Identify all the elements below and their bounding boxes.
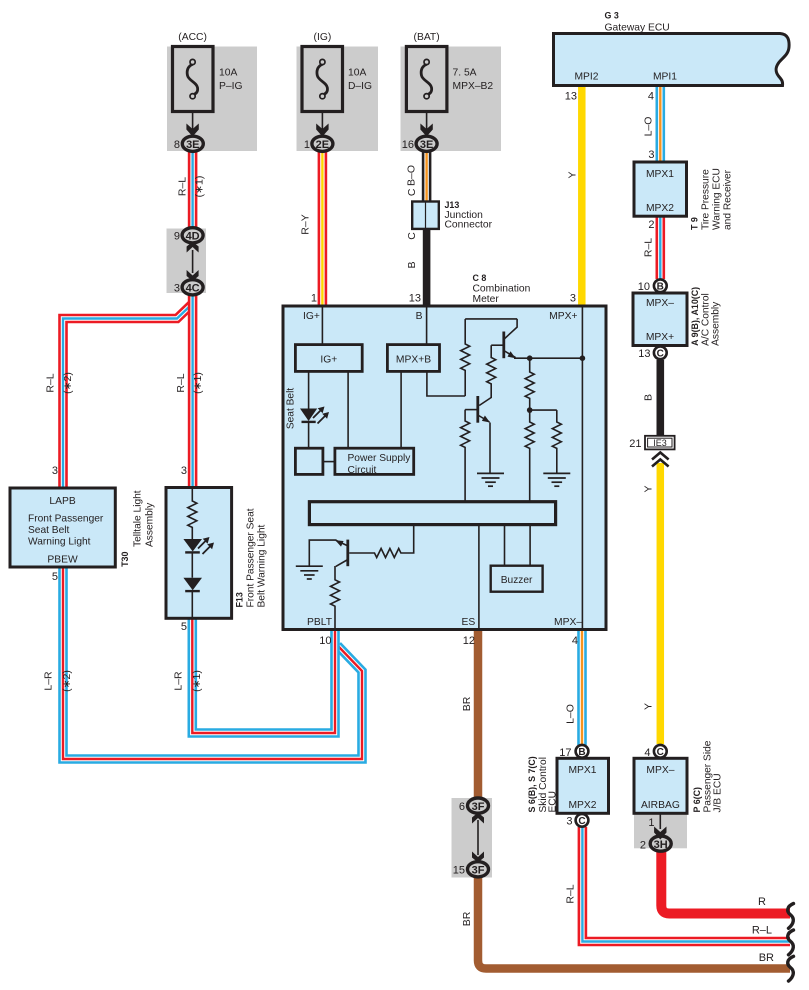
svg-text:P–IG: P–IG — [219, 81, 242, 92]
svg-text:13: 13 — [565, 91, 577, 103]
seat belt LED — [300, 407, 329, 424]
svg-text:BR: BR — [461, 911, 473, 926]
svg-text:9: 9 — [174, 231, 180, 243]
transistor Q2 — [476, 396, 479, 423]
circle connector C (P6 pin 4) — [654, 745, 667, 758]
svg-text:Circuit: Circuit — [348, 465, 377, 476]
fuse BAT 7.5A MPX-B2 — [406, 47, 447, 137]
wire IG+ block to LED — [308, 371, 310, 408]
svg-text:Buzzer: Buzzer — [501, 575, 533, 586]
svg-text:4: 4 — [644, 747, 650, 759]
ground G2 under R5 — [543, 473, 570, 486]
wire MPX+ pin3 down right side to MPX- pin4 — [581, 307, 583, 628]
svg-text:G 3: G 3 — [605, 11, 619, 21]
svg-text:J13: J13 — [445, 200, 460, 210]
svg-text:R–L: R–L — [177, 177, 189, 196]
svg-text:(∗2): (∗2) — [62, 372, 74, 394]
svg-text:IG+: IG+ — [320, 355, 337, 366]
svg-text:3: 3 — [648, 149, 654, 161]
resistor R3 — [525, 358, 534, 410]
svg-text:AIRBAG: AIRBAG — [641, 800, 680, 811]
node dot MPX+ line — [580, 355, 586, 361]
svg-text:R–L: R–L — [565, 884, 577, 903]
svg-text:B: B — [406, 261, 418, 268]
svg-text:PBLT: PBLT — [307, 617, 333, 628]
wire B A/C to IE3 — [656, 360, 664, 437]
bus bar rectangle — [309, 502, 555, 525]
svg-text:T 9: T 9 — [690, 217, 700, 230]
svg-text:Assembly: Assembly — [145, 502, 156, 547]
svg-text:10: 10 — [319, 635, 331, 647]
svg-text:3: 3 — [181, 465, 187, 477]
svg-text:MPX1: MPX1 — [646, 169, 674, 180]
oval connector 3H (pin 2) — [650, 836, 671, 851]
svg-text:12: 12 — [463, 635, 475, 647]
svg-text:3E: 3E — [420, 139, 433, 151]
svg-text:13: 13 — [409, 293, 421, 305]
rotated wire labels — [43, 117, 655, 927]
METER INTERNAL CIRCUIT — [309, 307, 583, 628]
svg-text:Warning ECU: Warning ECU — [712, 168, 723, 230]
transistor Q2 emitter arrow — [482, 416, 490, 423]
svg-text:Front Passenger Seat: Front Passenger Seat — [246, 508, 257, 607]
node dot R3/R4 junction — [527, 407, 533, 413]
svg-text:1: 1 — [311, 293, 317, 305]
svg-text:3H: 3H — [654, 839, 668, 851]
gateway ECU G3 box — [554, 34, 790, 86]
svg-text:A 9(B), A10(C): A 9(B), A10(C) — [690, 287, 700, 346]
buzzer block — [491, 566, 543, 592]
svg-text:Assembly: Assembly — [711, 301, 722, 346]
svg-text:S 6(B), S 7(C): S 6(B), S 7(C) — [527, 756, 537, 812]
svg-text:MPX+: MPX+ — [549, 311, 577, 322]
connector 4D/4C gray — [167, 229, 207, 294]
svg-text:1: 1 — [648, 817, 654, 829]
svg-text:R–L: R–L — [643, 238, 655, 257]
svg-text:R–L: R–L — [45, 373, 57, 392]
GRAY BOXES — [167, 47, 688, 878]
wire small box to power supply circuit — [323, 461, 335, 463]
svg-text:MPX–: MPX– — [554, 617, 582, 628]
combination meter C8 box — [283, 306, 606, 630]
circle connector C (skid pin 3) — [576, 814, 589, 827]
svg-text:3: 3 — [566, 816, 572, 828]
svg-text:4D: 4D — [186, 231, 200, 243]
svg-text:MPI1: MPI1 — [653, 72, 677, 83]
svg-text:Seat Belt: Seat Belt — [286, 388, 297, 430]
svg-text:J/B ECU: J/B ECU — [713, 773, 724, 812]
wire LED to small box — [308, 422, 310, 448]
connector 3F gray — [452, 798, 493, 878]
A/C control assembly box — [633, 293, 687, 346]
svg-text:5: 5 — [181, 621, 187, 633]
svg-text:3: 3 — [52, 465, 58, 477]
transistor Q3 emitter arrow (PNP) — [335, 540, 343, 546]
passenger side J/B ECU P6 box — [634, 758, 687, 813]
svg-text:Connector: Connector — [445, 220, 493, 231]
svg-text:C: C — [578, 816, 585, 827]
svg-text:C: C — [406, 232, 418, 240]
svg-text:L–R: L–R — [173, 671, 185, 691]
svg-text:IG+: IG+ — [303, 311, 320, 322]
svg-text:15: 15 — [453, 865, 465, 877]
fuse block (IG) gray — [297, 47, 379, 152]
svg-text:L–R: L–R — [43, 671, 55, 691]
oval connector 3E (BAT pin 16) — [416, 136, 437, 151]
svg-text:Y: Y — [643, 703, 655, 710]
transistor Q3 — [346, 540, 349, 567]
svg-text:10A: 10A — [219, 68, 237, 79]
svg-text:Y: Y — [567, 171, 579, 178]
telltale light assembly T30 box — [10, 488, 115, 567]
svg-text:2: 2 — [640, 839, 646, 851]
svg-text:17: 17 — [559, 747, 571, 759]
wire MPX+B to power supply circuit — [400, 371, 402, 448]
svg-text:13: 13 — [638, 348, 650, 360]
wire IG+ block to power supply circuit — [347, 371, 349, 448]
MPX+B block — [387, 345, 439, 372]
svg-text:Tire Pressure: Tire Pressure — [701, 169, 712, 230]
wire Y IE3 to P6 — [657, 463, 665, 744]
svg-text:Seat Belt: Seat Belt — [28, 525, 70, 536]
power supply circuit block — [335, 448, 414, 474]
svg-text:3F: 3F — [472, 801, 485, 813]
svg-text:MPX–: MPX– — [646, 765, 674, 776]
svg-text:C: C — [406, 188, 418, 196]
svg-text:B: B — [657, 282, 664, 293]
svg-text:2E: 2E — [316, 139, 329, 151]
svg-text:(∗1): (∗1) — [191, 670, 203, 692]
chevrons below IE3 — [652, 453, 669, 467]
skid control ECU box — [557, 758, 609, 813]
wire bus to buzzer right — [529, 525, 531, 566]
wire continuation squiggle R — [788, 904, 794, 929]
rotated component labels — [120, 168, 734, 812]
wire Q3 emitter to ground — [309, 540, 336, 566]
F13 LED2 — [183, 578, 202, 591]
wire R 3H to right edge — [661, 850, 790, 914]
wire R-L T9 to A/C — [655, 216, 665, 279]
connector IE3 — [645, 436, 675, 450]
svg-text:Gateway ECU: Gateway ECU — [605, 23, 670, 34]
svg-text:B–O: B–O — [406, 165, 418, 186]
svg-text:BR: BR — [759, 952, 774, 964]
svg-text:21: 21 — [629, 438, 641, 450]
svg-text:MPX–: MPX– — [646, 298, 674, 309]
junction connector J13 box — [412, 202, 439, 229]
wire R-L branch to T30 — [63, 305, 192, 489]
svg-text:C 8: C 8 — [473, 273, 487, 283]
fuse block (BAT) gray — [401, 47, 502, 152]
node dot Q1 emitter — [527, 355, 533, 361]
svg-text:PBEW: PBEW — [47, 555, 78, 566]
ground G1 under Q2 — [477, 473, 504, 486]
oval connector 3E (ACC pin 8) — [182, 136, 203, 151]
svg-text:3: 3 — [570, 293, 576, 305]
resistor R6 — [461, 410, 470, 502]
oval connector 3F (pin 6) — [468, 798, 489, 813]
wire L-O meter MPX- to skid ECU — [577, 629, 587, 745]
circle connector B (skid pin 17) — [576, 745, 589, 758]
oval connector 3F (pin 15) — [468, 862, 489, 877]
wire L-R F13 to meter PBLT (inner) — [192, 617, 335, 733]
wire R-L 4C to F13 — [188, 294, 198, 488]
svg-text:(BAT): (BAT) — [414, 32, 440, 43]
wire B J13 to meter pin13 — [423, 229, 431, 307]
svg-text:R: R — [758, 896, 766, 908]
circle connector B (T9 to A/C pin 10) — [654, 279, 667, 292]
svg-text:10A: 10A — [348, 68, 366, 79]
oval connector 4D (pin 9) — [182, 228, 203, 243]
tire pressure warning ECU T9 box — [634, 162, 687, 216]
wire continuation squiggle R-L — [788, 930, 794, 955]
svg-text:3E: 3E — [186, 139, 199, 151]
svg-text:3: 3 — [174, 283, 180, 295]
wire Q1 emitter to MPX+ line — [514, 357, 582, 359]
wire bus to ES pin — [478, 525, 480, 628]
node wire to R5 — [530, 409, 557, 411]
wire Q1 collector top — [465, 318, 517, 320]
wire meter pin1 to IG+ block — [321, 307, 323, 345]
oval connector 2E (IG pin 1) — [312, 136, 333, 151]
svg-text:(IG): (IG) — [314, 32, 332, 43]
wire R-L fuse ACC to 4D — [188, 151, 198, 229]
ground G3 under Q3 emitter — [296, 566, 323, 579]
svg-text:LAPB: LAPB — [49, 496, 75, 507]
wire bus to buzzer left — [504, 525, 506, 566]
double arrow between 4D and 4C — [187, 242, 199, 282]
resistor R1 — [461, 319, 470, 396]
resistor R5 — [552, 410, 561, 473]
svg-text:L–O: L–O — [565, 704, 577, 724]
fuse block (ACC) gray — [167, 47, 257, 152]
svg-text:Front Passenger: Front Passenger — [28, 514, 104, 525]
svg-text:4: 4 — [572, 635, 578, 647]
F13 LED1 — [183, 537, 214, 554]
wire BR meter ES to 3F — [474, 629, 483, 799]
svg-text:B: B — [643, 394, 655, 401]
fuse IG 10A D-IG — [302, 47, 343, 137]
svg-text:MPX2: MPX2 — [646, 203, 674, 214]
svg-text:F13: F13 — [235, 592, 245, 607]
resistor R4 — [525, 410, 534, 502]
svg-text:Telltale Light: Telltale Light — [133, 490, 144, 547]
F13 internal: resistor, LEDs — [188, 488, 197, 618]
svg-text:R–L: R–L — [752, 925, 772, 937]
svg-text:4: 4 — [648, 91, 654, 103]
svg-text:C: C — [657, 747, 664, 758]
svg-text:(∗1): (∗1) — [192, 372, 204, 394]
circle connector C (A/C pin 13) — [654, 346, 667, 359]
svg-text:16: 16 — [402, 139, 414, 151]
small block left of power supply circuit — [295, 448, 323, 474]
resistor R2 — [479, 345, 496, 405]
arrow P6 to 3H — [654, 814, 666, 840]
connector 3H gray — [634, 813, 687, 848]
wire Y gateway MPI2 to meter MPX+ — [578, 85, 586, 306]
double arrow between 3F and 3F — [472, 813, 484, 863]
svg-text:1: 1 — [304, 139, 310, 151]
svg-text:Warning Light: Warning Light — [28, 537, 91, 548]
svg-text:and Receiver: and Receiver — [723, 169, 734, 230]
wire B-O fuse BAT to J13 — [422, 151, 432, 202]
svg-text:(∗2): (∗2) — [61, 670, 73, 692]
front passenger seat belt warning light F13 box — [166, 488, 232, 619]
svg-text:B: B — [578, 747, 585, 758]
svg-text:R–L: R–L — [175, 373, 187, 392]
wire bus to Q3 base resistor R7 — [349, 525, 414, 558]
svg-text:2: 2 — [648, 219, 654, 231]
IG+ inner block — [295, 345, 362, 372]
svg-text:MPX–B2: MPX–B2 — [453, 81, 494, 92]
svg-text:ES: ES — [462, 617, 476, 628]
svg-text:Combination: Combination — [473, 284, 531, 295]
svg-text:BR: BR — [461, 696, 473, 711]
svg-text:5: 5 — [52, 571, 58, 583]
svg-text:MPX+B: MPX+B — [396, 355, 431, 366]
svg-text:Belt Warning Light: Belt Warning Light — [257, 524, 268, 607]
wire Q2 emitter to ground — [489, 423, 491, 474]
transistor Q1 emitter arrow — [508, 351, 516, 358]
wire L-R T30 to meter PBLT (outer) — [63, 566, 362, 759]
svg-text:MPX+: MPX+ — [646, 332, 674, 343]
svg-text:B: B — [416, 311, 423, 322]
wire MPX+B to resistor R1 — [427, 371, 465, 396]
svg-text:(∗1): (∗1) — [194, 176, 206, 198]
svg-text:C: C — [657, 349, 664, 360]
svg-text:MPX1: MPX1 — [568, 765, 596, 776]
wire meter pin13 to MPX+B block — [426, 307, 428, 345]
fuse ACC 10A P-IG — [173, 47, 214, 137]
wire Q3 collector through resistor R8 to PBLT — [331, 566, 340, 628]
svg-text:Power Supply: Power Supply — [348, 453, 412, 464]
wire R-Y fuse IG to meter pin1 — [318, 151, 328, 306]
svg-text:L–O: L–O — [643, 117, 655, 137]
svg-text:T30: T30 — [120, 552, 130, 567]
svg-text:3F: 3F — [472, 865, 485, 877]
svg-text:8: 8 — [174, 139, 180, 151]
svg-text:MPI2: MPI2 — [574, 72, 598, 83]
svg-text:Meter: Meter — [473, 294, 500, 305]
svg-text:7. 5A: 7. 5A — [453, 68, 477, 79]
wire BR 3F to right edge — [478, 877, 790, 969]
svg-text:Y: Y — [643, 485, 655, 492]
svg-text:D–IG: D–IG — [348, 81, 372, 92]
svg-text:R–Y: R–Y — [300, 214, 312, 234]
svg-text:MPX2: MPX2 — [568, 800, 596, 811]
svg-text:10: 10 — [638, 281, 650, 293]
oval connector 4C (pin 3) — [182, 280, 203, 295]
wire continuation squiggle BR — [788, 956, 794, 981]
svg-text:6: 6 — [459, 801, 465, 813]
wire R-L skid ECU to right edge — [582, 827, 790, 942]
transistor Q1 — [505, 319, 517, 339]
wire L-O gateway MPI1 to T9 — [655, 85, 665, 162]
svg-text:4C: 4C — [186, 283, 200, 295]
svg-text:IE3: IE3 — [653, 438, 667, 448]
svg-text:ECU: ECU — [548, 791, 559, 813]
svg-text:(ACC): (ACC) — [178, 32, 207, 43]
svg-text:P 6(C): P 6(C) — [692, 787, 702, 813]
